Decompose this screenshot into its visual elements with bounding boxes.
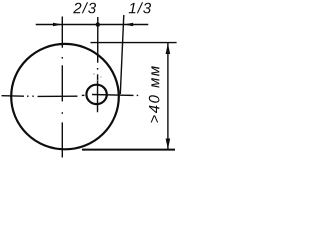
disc outline (main circle)	[11, 44, 119, 149]
extension line from disc rightmost point	[120, 15, 124, 94]
arrow pointing down	[166, 139, 171, 150]
junction dot on dimension line at hole centerline	[96, 22, 100, 26]
vertical centerline of hole (dash-dot)	[97, 17, 99, 112]
arrow pointing up	[166, 43, 171, 54]
label >40 мм (rotated)	[149, 66, 160, 122]
top dimension line	[36, 24, 149, 26]
label 1/3	[129, 2, 151, 13]
label 2/3	[73, 2, 96, 13]
diameter dimension line (vertical)	[167, 43, 169, 149]
hole (small circle)	[86, 85, 106, 104]
horizontal centerline (dash-dot)	[2, 95, 139, 97]
diameter top extension line	[91, 42, 177, 44]
vertical centerline of disc (dash-dot)	[61, 17, 63, 158]
diameter bottom extension line	[82, 149, 175, 151]
scan speckles	[93, 73, 102, 81]
arrow pointing left at right extension	[124, 23, 133, 27]
arrow pointing right at disc centerline	[53, 23, 62, 27]
